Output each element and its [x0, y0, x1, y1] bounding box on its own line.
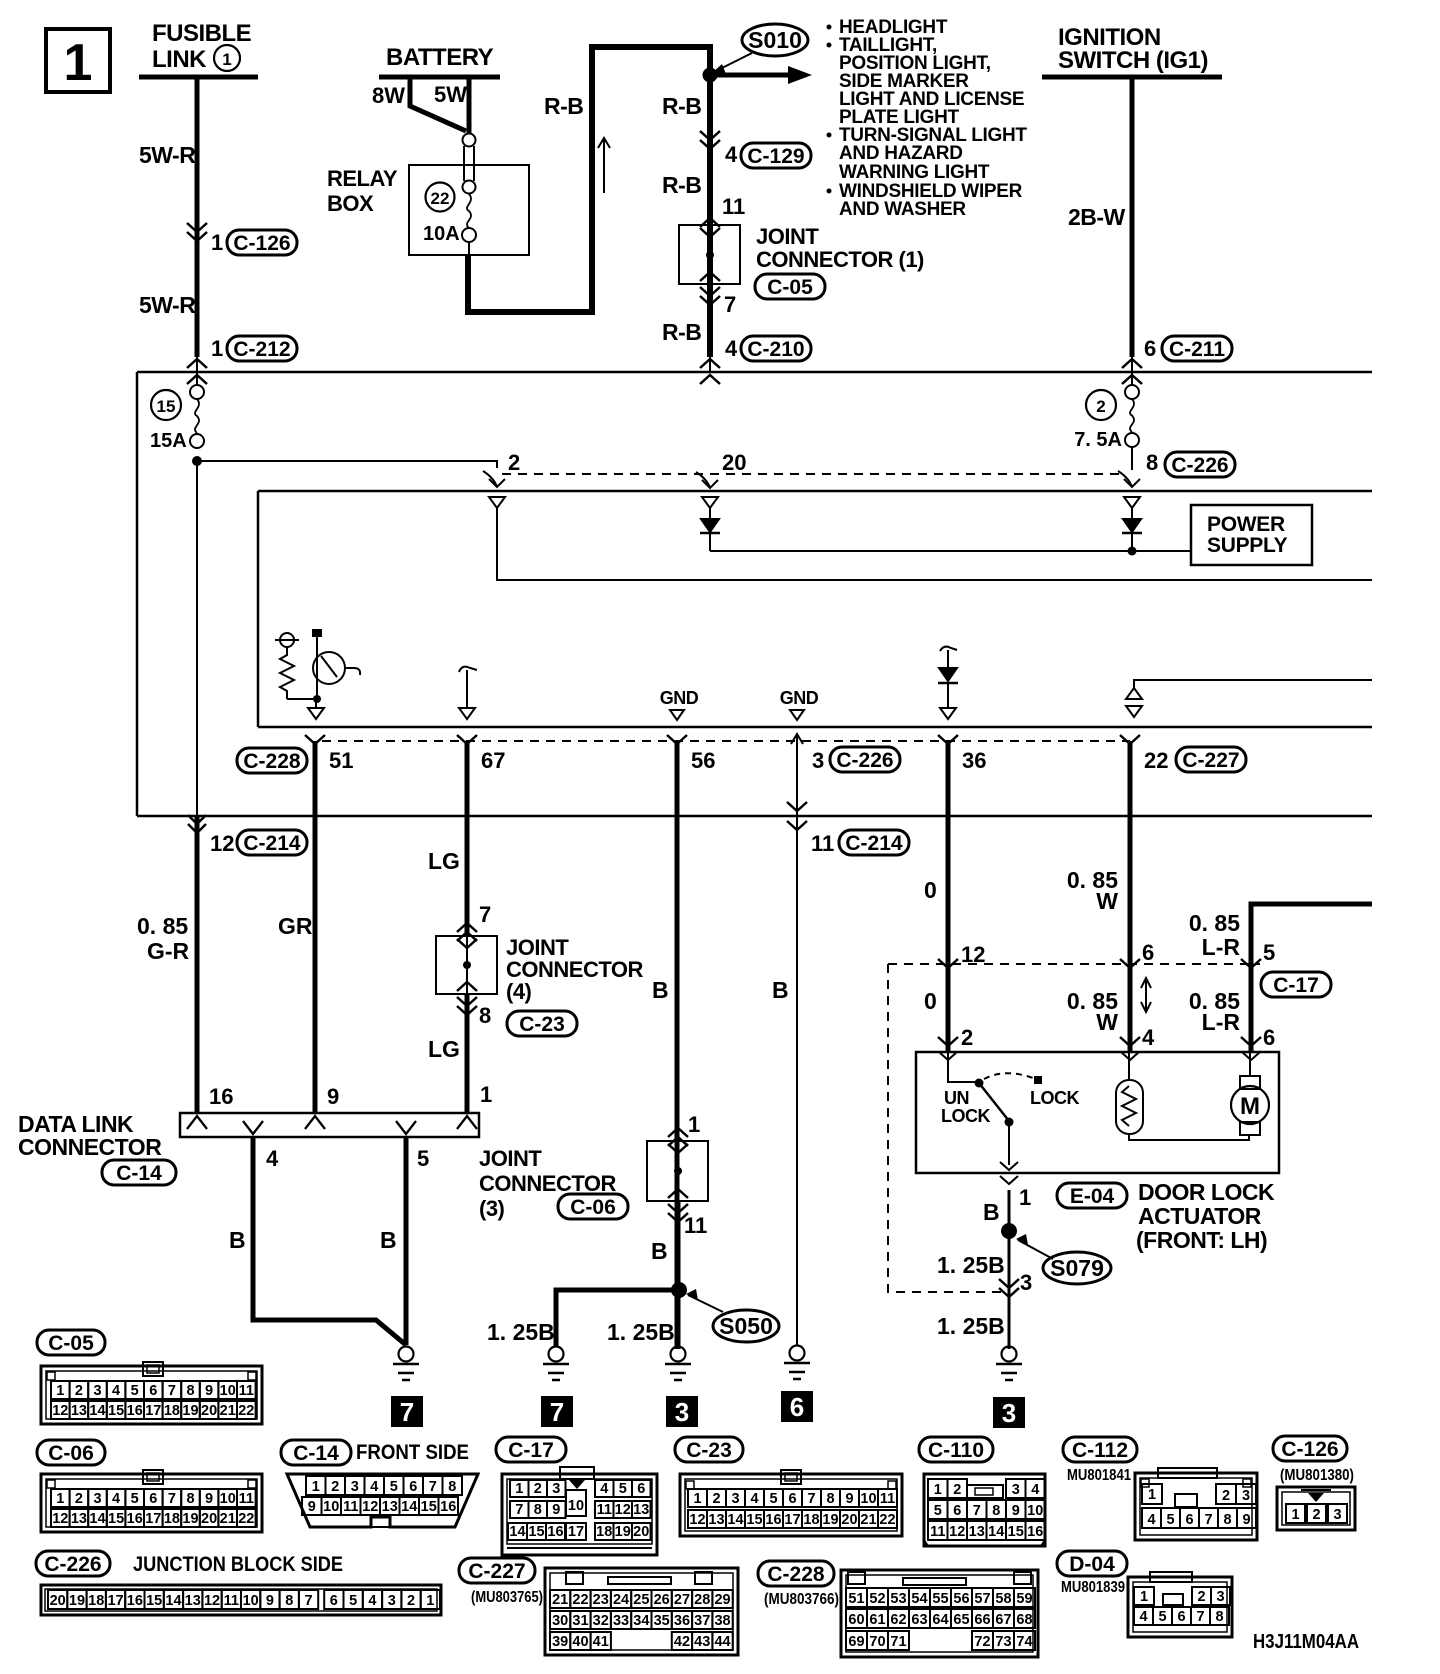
svg-text:3: 3: [388, 1593, 396, 1609]
motor M in actuator: [1240, 1076, 1260, 1089]
svg-text:53: 53: [890, 1591, 906, 1607]
svg-text:C-14: C-14: [293, 1442, 339, 1465]
svg-text:16: 16: [547, 1524, 563, 1540]
wire 0 pin36 to actuator: [946, 741, 951, 1052]
svg-text:M: M: [1240, 1093, 1260, 1120]
wire 5W-R fusible link vertical: [195, 77, 200, 357]
svg-text:1: 1: [480, 1082, 492, 1107]
svg-text:W: W: [1096, 888, 1118, 914]
svg-text:C-227: C-227: [1182, 749, 1239, 772]
svg-text:20: 20: [722, 450, 746, 475]
svg-text:4: 4: [1142, 1025, 1155, 1050]
svg-text:33: 33: [613, 1613, 629, 1629]
svg-text:2: 2: [712, 1491, 720, 1507]
svg-text:7: 7: [429, 1479, 437, 1495]
svg-text:21: 21: [220, 1511, 236, 1527]
svg-text:4: 4: [112, 1383, 120, 1399]
svg-text:18: 18: [88, 1593, 104, 1609]
svg-text:22: 22: [572, 1592, 588, 1608]
svg-text:61: 61: [869, 1612, 885, 1628]
pin 5 on dashed connector C-17: [1241, 959, 1261, 968]
svg-text:15: 15: [1008, 1524, 1024, 1540]
svg-text:R-B: R-B: [662, 172, 701, 198]
junction dot S079: [1001, 1223, 1017, 1239]
svg-text:10A: 10A: [423, 223, 460, 245]
ECU pin sockets on top edge: [489, 497, 505, 508]
svg-text:11: 11: [684, 1213, 707, 1238]
splice oval S079: [1018, 1240, 1053, 1259]
wire 8W from battery: [410, 77, 466, 131]
svg-text:2: 2: [1096, 397, 1105, 416]
internal diode at pin 36: [940, 647, 957, 651]
svg-text:3: 3: [1012, 1482, 1020, 1498]
svg-text:15: 15: [528, 1524, 544, 1540]
wire diodes to power supply: [710, 550, 1191, 552]
svg-text:C-228: C-228: [243, 750, 301, 773]
svg-text:51: 51: [848, 1591, 864, 1607]
svg-text:3: 3: [1020, 1270, 1032, 1295]
junction dot after fuse 15: [192, 456, 202, 466]
svg-text:CONNECTOR (1): CONNECTOR (1): [756, 247, 924, 272]
svg-text:13: 13: [71, 1403, 87, 1419]
svg-text:13: 13: [969, 1524, 985, 1540]
connector pass C-129 pin 4: [700, 131, 720, 140]
wire 0.85G-R to DLC pin16: [195, 816, 200, 1113]
connector C-226 pinout junction block side: [36, 1551, 110, 1576]
svg-text:36: 36: [962, 748, 986, 773]
svg-text:14: 14: [509, 1524, 525, 1540]
svg-text:H3J11M04AA: H3J11M04AA: [1253, 1631, 1359, 1653]
svg-text:18: 18: [164, 1511, 180, 1527]
svg-text:5: 5: [131, 1491, 139, 1507]
svg-text:L-R: L-R: [1202, 1009, 1241, 1035]
svg-text:8: 8: [186, 1383, 194, 1399]
svg-text:8: 8: [826, 1491, 834, 1507]
svg-text:21: 21: [220, 1403, 236, 1419]
page number box 1: [46, 29, 110, 92]
svg-text:6: 6: [409, 1479, 417, 1495]
svg-text:3: 3: [351, 1479, 359, 1495]
svg-text:7: 7: [1196, 1609, 1204, 1625]
svg-text:14: 14: [89, 1511, 105, 1527]
svg-text:1: 1: [688, 1112, 700, 1137]
svg-text:LG: LG: [428, 848, 460, 874]
svg-text:10: 10: [860, 1491, 876, 1507]
svg-text:3: 3: [1242, 1488, 1250, 1504]
current direction arrow: [603, 140, 605, 193]
ground marker 3: [666, 1396, 698, 1427]
svg-text:68: 68: [1016, 1612, 1032, 1628]
svg-text:1. 25B: 1. 25B: [937, 1252, 1005, 1278]
svg-text:56: 56: [691, 748, 715, 773]
outer box crossing C-214 pin 11: [787, 802, 807, 811]
svg-text:2: 2: [508, 450, 520, 475]
svg-text:32: 32: [593, 1613, 609, 1629]
svg-text:9: 9: [552, 1502, 560, 1518]
svg-text:2B-W: 2B-W: [1068, 204, 1126, 230]
wire LG joint4 to DLC pin1: [465, 994, 470, 1113]
svg-text:4: 4: [725, 142, 738, 167]
svg-text:12: 12: [52, 1511, 68, 1527]
svg-text:2: 2: [534, 1481, 542, 1497]
svg-text:17: 17: [784, 1512, 800, 1528]
svg-text:4: 4: [750, 1491, 758, 1507]
svg-text:10: 10: [1027, 1503, 1043, 1519]
svg-text:14: 14: [89, 1403, 105, 1419]
svg-text:20: 20: [841, 1512, 857, 1528]
wire 5W from battery: [467, 77, 472, 133]
svg-text:GND: GND: [780, 688, 819, 708]
svg-text:1: 1: [426, 1593, 434, 1609]
svg-text:41: 41: [593, 1634, 609, 1650]
svg-text:9: 9: [308, 1499, 316, 1515]
svg-text:59: 59: [1016, 1591, 1032, 1607]
svg-text:64: 64: [932, 1612, 948, 1628]
svg-text:12: 12: [689, 1512, 705, 1528]
svg-text:16: 16: [765, 1512, 781, 1528]
svg-text:C-126: C-126: [233, 232, 290, 255]
svg-text:5W-R: 5W-R: [139, 292, 196, 318]
wire ECU pin22 internal: [1134, 680, 1372, 688]
svg-text:B: B: [772, 977, 789, 1003]
svg-text:4: 4: [266, 1146, 279, 1171]
svg-text:2: 2: [953, 1482, 961, 1498]
svg-text:10: 10: [323, 1499, 339, 1515]
svg-text:LG: LG: [428, 1036, 460, 1062]
svg-text:5: 5: [390, 1479, 398, 1495]
svg-text:18: 18: [164, 1403, 180, 1419]
svg-text:13: 13: [185, 1593, 201, 1609]
svg-text:1: 1: [1019, 1185, 1031, 1210]
svg-text:1: 1: [1291, 1507, 1299, 1523]
svg-text:52: 52: [869, 1591, 885, 1607]
ground DLC: [399, 1347, 414, 1362]
svg-text:C-227: C-227: [468, 1560, 525, 1583]
svg-text:22: 22: [238, 1403, 254, 1419]
svg-text:44: 44: [714, 1634, 730, 1650]
svg-text:BATTERY: BATTERY: [386, 44, 494, 71]
svg-text:CONNECTOR: CONNECTOR: [18, 1134, 162, 1160]
svg-text:8: 8: [448, 1479, 456, 1495]
svg-text:6: 6: [1177, 1609, 1185, 1625]
svg-text:R-B: R-B: [662, 319, 701, 345]
svg-text:20: 20: [633, 1524, 649, 1540]
svg-text:4: 4: [368, 1593, 376, 1609]
connector pass C-126 pin 1: [187, 223, 207, 232]
wire LG pin67 to joint connector 4: [465, 741, 470, 936]
svg-text:13: 13: [633, 1502, 649, 1518]
svg-text:7: 7: [807, 1491, 815, 1507]
svg-text:E-04: E-04: [1070, 1185, 1115, 1208]
svg-text:2: 2: [75, 1491, 83, 1507]
pin 3 crossing dashed: [999, 1279, 1019, 1288]
svg-text:19: 19: [615, 1524, 631, 1540]
svg-text:8: 8: [1223, 1512, 1231, 1528]
svg-text:11: 11: [930, 1524, 945, 1540]
svg-text:19: 19: [182, 1511, 198, 1527]
svg-text:3: 3: [1216, 1589, 1224, 1605]
svg-text:C-226: C-226: [1171, 454, 1228, 477]
svg-text:16: 16: [209, 1084, 233, 1109]
wire 2B-W ignition vertical: [1130, 77, 1135, 357]
svg-text:R-B: R-B: [544, 93, 583, 119]
svg-text:(4): (4): [506, 979, 532, 1004]
svg-text:GR: GR: [278, 913, 313, 939]
svg-text:S050: S050: [719, 1313, 773, 1339]
svg-text:1: 1: [934, 1482, 942, 1498]
svg-text:SUPPLY: SUPPLY: [1207, 534, 1288, 557]
svg-text:8: 8: [186, 1491, 194, 1507]
svg-text:C-212: C-212: [233, 338, 290, 361]
ECU connector dashed line pins 2-20-8: [502, 473, 1122, 475]
svg-text:G-R: G-R: [147, 938, 190, 964]
ECU output switch symbol at pin 67: [459, 667, 477, 672]
svg-text:11: 11: [239, 1491, 254, 1507]
svg-text:3: 3: [1333, 1507, 1341, 1523]
svg-text:2: 2: [407, 1593, 415, 1609]
switch wire to pin 1: [1008, 1122, 1010, 1165]
svg-text:B: B: [380, 1227, 397, 1253]
transistor circuit: pull-up resistor: [280, 633, 294, 647]
svg-text:B: B: [652, 977, 669, 1003]
svg-text:C-214: C-214: [845, 832, 903, 855]
branch arrow to lighting loads: [710, 73, 793, 78]
svg-text:C-210: C-210: [747, 338, 804, 361]
ground marker 6: [781, 1391, 813, 1422]
svg-text:JOINT: JOINT: [479, 1146, 542, 1171]
svg-text:51: 51: [329, 748, 353, 773]
svg-text:8: 8: [1215, 1609, 1223, 1625]
svg-text:8W: 8W: [372, 83, 405, 108]
svg-text:7: 7: [973, 1503, 981, 1519]
svg-text:4: 4: [1139, 1609, 1147, 1625]
svg-text:6: 6: [149, 1491, 157, 1507]
connector C-228 pinout: [758, 1561, 834, 1586]
fuse 15 in junction block: [151, 390, 181, 420]
svg-text:6: 6: [790, 1392, 804, 1422]
svg-text:12: 12: [961, 942, 985, 967]
svg-text:14: 14: [727, 1512, 743, 1528]
svg-text:27: 27: [674, 1592, 690, 1608]
ground marker 7 left: [541, 1396, 573, 1427]
svg-text:0: 0: [924, 988, 937, 1014]
svg-text:1: 1: [1148, 1487, 1156, 1503]
pin 67: [457, 735, 477, 744]
svg-text:(3): (3): [479, 1196, 505, 1221]
svg-text:7. 5A: 7. 5A: [1074, 429, 1122, 451]
junction block outline: [137, 371, 1372, 374]
svg-text:63: 63: [911, 1612, 927, 1628]
svg-text:AND HAZARD: AND HAZARD: [839, 143, 963, 164]
svg-text:4: 4: [725, 336, 738, 361]
svg-text:3: 3: [812, 748, 824, 773]
svg-text:5: 5: [349, 1593, 357, 1609]
svg-text:15: 15: [421, 1499, 437, 1515]
svg-text:S010: S010: [748, 27, 802, 53]
svg-text:L-R: L-R: [1202, 934, 1241, 960]
svg-text:72: 72: [974, 1634, 990, 1650]
svg-text:2: 2: [1197, 1589, 1205, 1605]
svg-text:1: 1: [56, 1383, 64, 1399]
wire R-B main vertical: [707, 44, 713, 357]
ground pin3 wire: [790, 1346, 805, 1361]
transistor Q1: [312, 629, 322, 637]
pin 56: [667, 735, 687, 744]
svg-text:C-214: C-214: [243, 832, 301, 855]
svg-text:9: 9: [1242, 1512, 1250, 1528]
svg-text:15: 15: [108, 1511, 124, 1527]
svg-text:(FRONT: LH): (FRONT: LH): [1136, 1227, 1267, 1253]
svg-text:15A: 15A: [150, 430, 187, 452]
svg-text:(MU803766): (MU803766): [764, 1591, 839, 1608]
svg-text:1: 1: [693, 1491, 701, 1507]
power supply box: [1191, 505, 1312, 565]
svg-text:28: 28: [694, 1592, 710, 1608]
svg-text:6: 6: [1144, 336, 1156, 361]
svg-text:73: 73: [995, 1634, 1011, 1650]
svg-text:12: 12: [52, 1403, 68, 1419]
wire B DLC pin4 to ground: [253, 1137, 406, 1345]
svg-text:22: 22: [879, 1512, 895, 1528]
wire fuse2 to ECU pin 8: [1131, 447, 1133, 470]
fuse 2 7.5A in junction block: [1086, 390, 1116, 420]
svg-text:WARNING LIGHT: WARNING LIGHT: [839, 162, 990, 183]
svg-text:R-B: R-B: [662, 93, 701, 119]
pin 12 on dashed connector: [938, 959, 958, 968]
ground marker 3 actuator: [993, 1397, 1025, 1428]
lock switch inside actuator: [948, 1052, 978, 1082]
svg-text:70: 70: [869, 1634, 885, 1650]
svg-text:AND WASHER: AND WASHER: [839, 199, 966, 220]
svg-text:17: 17: [107, 1593, 123, 1609]
svg-text:22: 22: [1144, 748, 1168, 773]
svg-text:C-06: C-06: [570, 1196, 616, 1219]
svg-text:5: 5: [769, 1491, 777, 1507]
data link connector C-14 bar: [180, 1113, 479, 1137]
svg-text:1: 1: [515, 1481, 523, 1497]
svg-text:9: 9: [1012, 1503, 1020, 1519]
svg-text:71: 71: [890, 1634, 906, 1650]
svg-text:(MU801380): (MU801380): [1280, 1467, 1354, 1484]
svg-text:65: 65: [953, 1612, 969, 1628]
svg-text:3: 3: [93, 1383, 101, 1399]
connector C-14 pinout front side: [281, 1440, 351, 1465]
svg-text:11: 11: [880, 1491, 895, 1507]
svg-text:9: 9: [327, 1084, 339, 1109]
svg-text:20: 20: [201, 1403, 217, 1419]
svg-text:29: 29: [714, 1592, 730, 1608]
svg-text:17: 17: [145, 1403, 161, 1419]
pin 51: [305, 735, 325, 744]
pin 6 on dashed connector: [1120, 959, 1140, 968]
svg-text:56: 56: [953, 1591, 969, 1607]
svg-text:0. 85: 0. 85: [1189, 910, 1240, 936]
svg-text:C-110: C-110: [928, 1439, 984, 1462]
svg-text:S079: S079: [1050, 1255, 1104, 1281]
svg-text:1. 25B: 1. 25B: [607, 1319, 675, 1345]
svg-text:24: 24: [613, 1592, 629, 1608]
svg-text:B: B: [651, 1238, 668, 1264]
ECU pin 20 arrow: [696, 472, 710, 488]
svg-text:6: 6: [637, 1481, 645, 1497]
fuse 22 circled: [426, 183, 455, 212]
svg-text:16: 16: [1027, 1524, 1043, 1540]
svg-text:22: 22: [238, 1511, 254, 1527]
wire B pin3 to ground: [796, 741, 798, 1346]
svg-text:6: 6: [788, 1491, 796, 1507]
svg-text:3: 3: [675, 1397, 689, 1427]
svg-text:5: 5: [417, 1146, 429, 1171]
svg-text:3: 3: [1002, 1398, 1016, 1428]
svg-text:7: 7: [724, 292, 736, 317]
svg-text:15: 15: [157, 397, 176, 416]
svg-text:B: B: [983, 1199, 1000, 1225]
svg-text:57: 57: [974, 1591, 990, 1607]
svg-text:58: 58: [995, 1591, 1011, 1607]
svg-text:21: 21: [860, 1512, 876, 1528]
svg-text:15: 15: [108, 1403, 124, 1419]
ground left 1.25B: [549, 1347, 564, 1362]
wire fuse15 down to C-214: [196, 461, 198, 816]
svg-text:3: 3: [93, 1491, 101, 1507]
svg-text:LINK: LINK: [152, 46, 207, 73]
svg-text:6: 6: [330, 1593, 338, 1609]
svg-text:9: 9: [205, 1383, 213, 1399]
svg-text:LOCK: LOCK: [1030, 1088, 1079, 1108]
svg-text:34: 34: [633, 1613, 649, 1629]
svg-text:20: 20: [201, 1511, 217, 1527]
svg-text:RELAY: RELAY: [327, 166, 398, 191]
svg-text:10: 10: [220, 1383, 236, 1399]
svg-text:25: 25: [633, 1592, 649, 1608]
svg-text:7: 7: [168, 1491, 176, 1507]
svg-text:C-228: C-228: [767, 1563, 825, 1586]
svg-text:36: 36: [674, 1613, 690, 1629]
svg-text:11: 11: [239, 1383, 254, 1399]
svg-text:6: 6: [1263, 1025, 1275, 1050]
ECU box outline: [258, 490, 1372, 493]
svg-text:15: 15: [146, 1593, 162, 1609]
connector C-110 pinout: [919, 1437, 993, 1462]
svg-text:1: 1: [211, 336, 223, 361]
svg-text:6: 6: [1185, 1512, 1193, 1528]
svg-text:12: 12: [210, 831, 234, 856]
svg-text:JOINT: JOINT: [756, 224, 819, 249]
wire fuse15 to ECU pin 2: [197, 461, 497, 468]
connector D-04 pinout: [1057, 1551, 1127, 1576]
svg-text:C-23: C-23: [686, 1439, 732, 1462]
svg-text:8: 8: [534, 1502, 542, 1518]
svg-text:UN: UN: [944, 1088, 969, 1108]
svg-text:12: 12: [615, 1502, 631, 1518]
svg-text:C-226: C-226: [44, 1553, 101, 1576]
battery bus bar: [379, 75, 500, 80]
svg-text:7: 7: [1204, 1512, 1212, 1528]
svg-text:C-23: C-23: [519, 1013, 565, 1036]
svg-text:10: 10: [568, 1498, 584, 1514]
wire ECU pin2 internal: [497, 508, 1372, 580]
svg-text:LOCK: LOCK: [941, 1106, 990, 1126]
ground actuator: [1002, 1347, 1017, 1362]
svg-text:23: 23: [593, 1592, 609, 1608]
svg-text:FUSIBLE: FUSIBLE: [152, 20, 252, 47]
svg-text:1: 1: [1140, 1589, 1148, 1605]
wire crossing into junction block: [187, 359, 207, 368]
svg-text:12: 12: [949, 1524, 965, 1540]
svg-text:5: 5: [934, 1503, 942, 1519]
svg-text:39: 39: [552, 1634, 568, 1650]
wire fuse output to R-B junction: [468, 242, 470, 257]
